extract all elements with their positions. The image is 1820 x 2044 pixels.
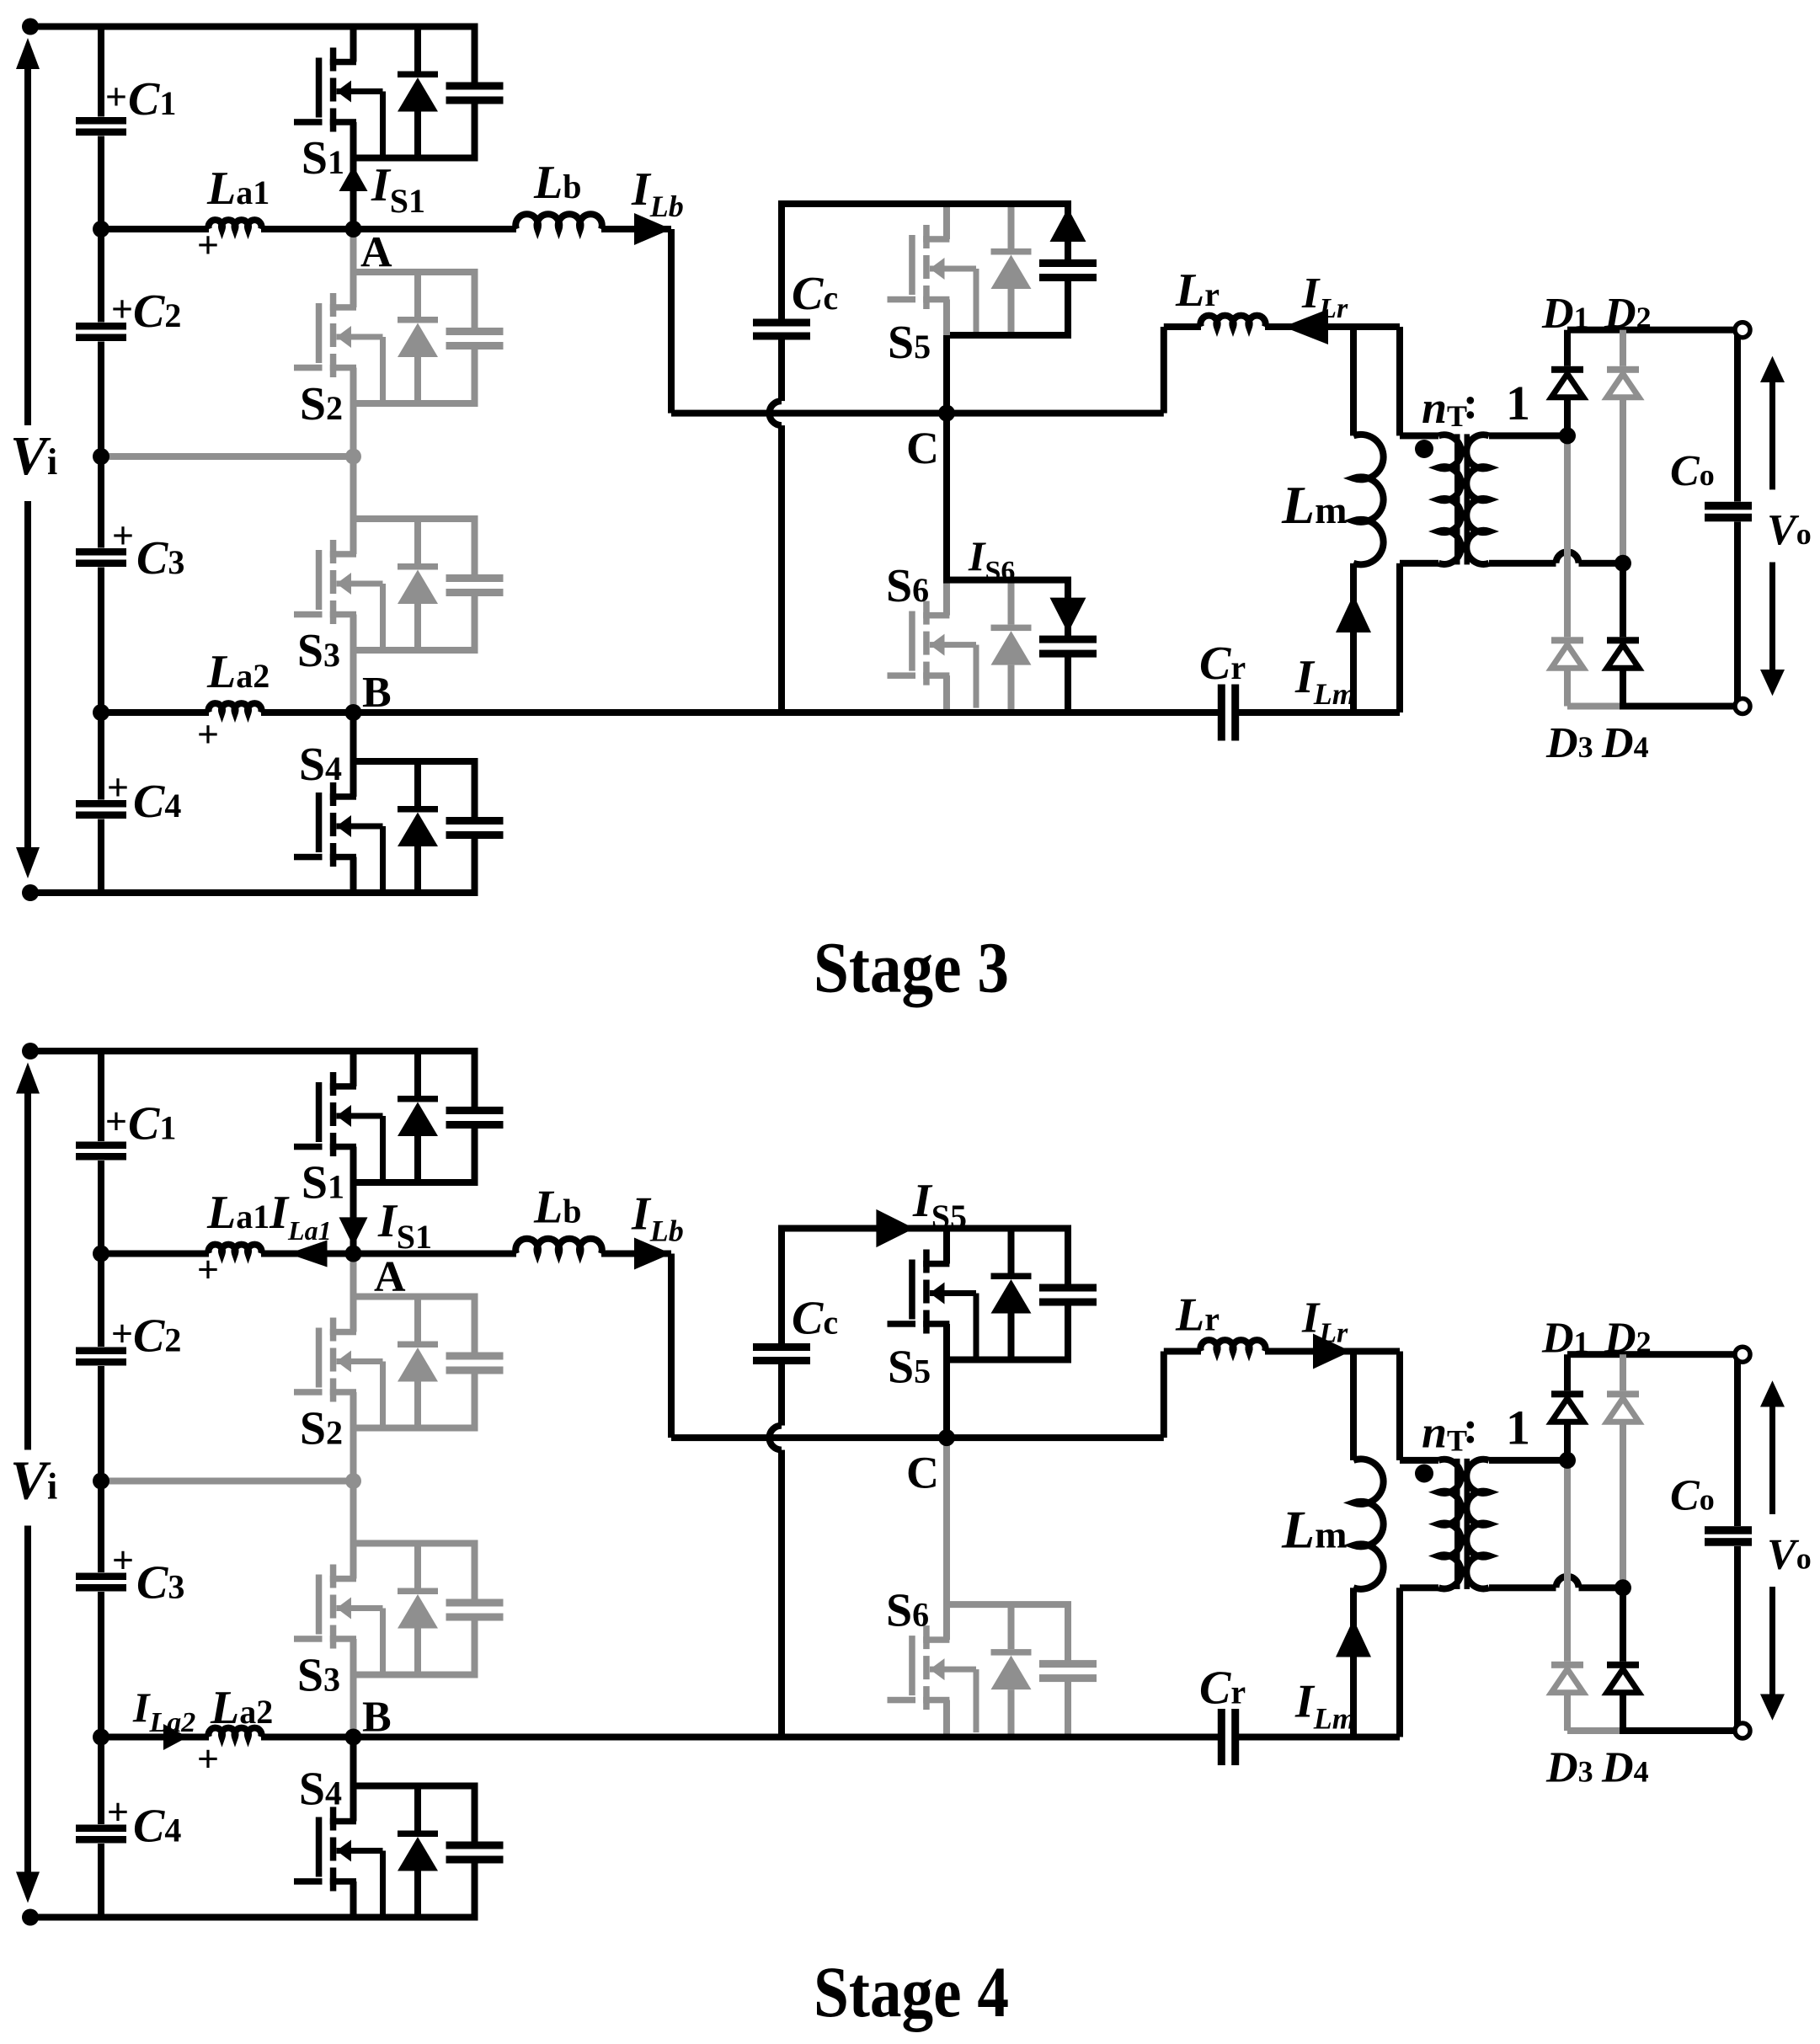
wire stage4 top rail	[30, 1048, 478, 1054]
wire top rail	[30, 24, 478, 30]
diode stage4 D4	[1620, 1588, 1626, 1662]
node B	[345, 704, 362, 721]
node stage4 A	[345, 1246, 362, 1262]
svg-text:+: +	[112, 514, 134, 557]
wire stage4 S2 drain lead (gray)	[350, 1254, 357, 1332]
wire C-row rise to Lr	[1161, 327, 1167, 414]
wire stage4 row C	[671, 1434, 1164, 1441]
wire output bottom rail	[1620, 703, 1737, 710]
svg-text:B: B	[362, 1694, 392, 1742]
svg-text::: :	[1463, 1402, 1478, 1453]
inductor La1	[209, 220, 262, 229]
capacitor stage4 C3	[76, 1573, 126, 1581]
current arrow stage4 IS1 down	[339, 1217, 368, 1246]
svg-text:+: +	[197, 1737, 219, 1780]
diode D1	[1564, 330, 1571, 366]
wire S3 source lead (gray)	[350, 615, 357, 713]
wire stage4 output top rail	[1567, 1351, 1737, 1358]
wire S5 source to node C	[943, 335, 950, 414]
wire stage4 secondary bottom hop	[1556, 1577, 1579, 1588]
current arrow stage4 ILa2 right	[163, 1724, 188, 1750]
transformer stage4 core	[1454, 1459, 1460, 1589]
node bottom-left junction	[22, 884, 39, 901]
wire stage4 Lr drop to primary	[1396, 1352, 1403, 1460]
capacitor stage4 Cr	[1218, 1709, 1225, 1765]
inductor stage4 Lb	[515, 1239, 602, 1254]
capacitor stage4 C1	[76, 1142, 126, 1150]
transistor S4	[330, 782, 337, 806]
svg-text:A: A	[360, 229, 392, 277]
node secondary top junction	[1559, 427, 1576, 444]
wire input capacitor chain rail	[98, 27, 104, 117]
node mid-left junction	[93, 448, 109, 465]
current arrow ILr left	[1284, 309, 1328, 344]
source Vi arrow lower	[24, 501, 31, 849]
transformer primary bottom	[1400, 560, 1438, 567]
inductor Lm	[1350, 327, 1357, 435]
wire stage4 row B	[101, 1734, 209, 1741]
source Vi stage4 arrow lower	[24, 1526, 31, 1874]
wire S4 source lead	[350, 857, 357, 894]
wire Lr drop to primary	[1396, 327, 1403, 435]
wire secondary bottom	[1489, 560, 1556, 567]
svg-text:Stage 3: Stage 3	[814, 927, 1009, 1008]
svg-text::: :	[1463, 377, 1478, 428]
inductor stage4 Lr	[1200, 1340, 1265, 1351]
wire stage4 ILb drop	[668, 1254, 675, 1438]
wire S5 source lead (gray)	[943, 300, 950, 336]
diode D3 (gray)	[1564, 435, 1571, 637]
transistor stage4 S1	[330, 1072, 337, 1096]
svg-text:+: +	[111, 1312, 133, 1355]
svg-text:A: A	[374, 1253, 406, 1301]
transformer primary top	[1400, 432, 1438, 439]
capacitor Cr	[1218, 685, 1225, 741]
wire S4 drain lead	[350, 712, 357, 797]
wire stage4 S3 drain lead (gray)	[350, 1481, 357, 1579]
wire primary return	[1396, 563, 1403, 712]
wire stage4 S1 source lead	[350, 1147, 357, 1254]
wire S1 source lead	[350, 122, 357, 229]
transistor stage4 S3 (gray)	[330, 1565, 337, 1588]
node stage4 B	[345, 1729, 362, 1746]
current arrow IS1 up	[339, 166, 368, 191]
transformer stage4 primary winding	[1438, 1460, 1461, 1589]
transistor S1	[330, 48, 337, 72]
transistor stage4 S6 (gray)	[923, 1625, 930, 1649]
wire stage4 C-row rise to Lr	[1161, 1352, 1167, 1438]
wire stage4 S4 source lead	[350, 1881, 357, 1918]
current arrow stage4 ILr right	[1313, 1334, 1351, 1369]
node A	[345, 221, 362, 237]
transistor S5 (gray switch, black snubber)	[923, 225, 930, 248]
capacitor Cc	[778, 204, 785, 319]
wire stage4 output bottom rail	[1620, 1727, 1737, 1734]
wire stage4 row mid (gray)	[101, 1478, 354, 1485]
arrow Vo up	[1769, 381, 1775, 489]
wire ILb drop	[668, 229, 675, 414]
node B-row left junction	[93, 704, 109, 721]
wire secondary bottom hop	[1556, 552, 1579, 563]
transistor S3 (gray)	[330, 540, 337, 563]
svg-text:+: +	[197, 223, 219, 266]
inductor stage4 La2	[209, 1728, 262, 1737]
current arrow stage4 ILb	[634, 1238, 671, 1270]
svg-text:1: 1	[1506, 376, 1530, 430]
arrow stage4 Vo up	[1769, 1406, 1775, 1514]
wire S2 drain lead (gray)	[350, 229, 357, 307]
transistor S2 (gray)	[330, 293, 337, 317]
arrow Vo down	[1769, 563, 1775, 671]
svg-text:B: B	[362, 669, 392, 717]
wire stage4 output right rail	[1734, 1354, 1741, 1526]
capacitor C1	[76, 117, 126, 125]
wire stage4 row B right of Cr	[1239, 1734, 1400, 1741]
node stage4 mid switch junction	[345, 1473, 361, 1489]
terminal output minus	[1735, 699, 1750, 714]
wire bottom rail	[30, 889, 478, 896]
node primary polarity dot	[1415, 440, 1433, 458]
inductor stage4 La1	[209, 1245, 262, 1254]
diode stage4 D1	[1564, 1354, 1571, 1390]
inductor Lr	[1200, 316, 1265, 327]
node mid switch junction	[345, 449, 361, 465]
diode stage4 D2 (gray)	[1620, 1354, 1626, 1390]
wire secondary top	[1489, 432, 1567, 439]
wire S6 source lead (gray)	[943, 675, 950, 712]
wire S2 source lead (gray)	[350, 368, 357, 457]
wire row mid (gray)	[101, 453, 354, 460]
wire stage4 secondary top	[1489, 1457, 1567, 1464]
inductor stage4 Lm	[1350, 1352, 1357, 1460]
wire output right rail	[1734, 330, 1741, 502]
wire S3 drain lead (gray)	[350, 456, 357, 554]
wire row B	[101, 709, 209, 716]
wire output top rail	[1567, 327, 1737, 334]
transformer secondary winding	[1466, 435, 1489, 564]
transistor stage4 S2 (gray)	[330, 1318, 337, 1342]
source Vi stage4 arrow upper	[24, 1092, 31, 1450]
wire stage4 S5 source to node C	[943, 1324, 950, 1438]
wire stage4 bottom rail	[30, 1914, 478, 1921]
transformer primary winding	[1438, 435, 1461, 564]
transformer core	[1454, 434, 1460, 564]
wire row C	[671, 410, 1164, 417]
svg-text:+: +	[107, 766, 129, 809]
node stage4 primary polarity dot	[1415, 1465, 1433, 1483]
svg-text:1: 1	[1506, 1401, 1530, 1455]
node top-left junction	[22, 19, 39, 35]
wire stage4 S4 drain lead	[350, 1737, 357, 1822]
transformer stage4 primary bottom	[1400, 1584, 1438, 1591]
terminal stage4 output minus	[1735, 1723, 1750, 1738]
inductor La2	[209, 703, 262, 712]
svg-text:+: +	[197, 712, 219, 755]
svg-text:C: C	[906, 1448, 939, 1498]
diode stage4 D3 (gray)	[1564, 1460, 1571, 1662]
node stage4 B-row left junction	[93, 1729, 109, 1746]
source Vi arrow upper	[24, 67, 31, 425]
wire Cc hop over row C	[770, 401, 782, 425]
wire stage4 row A	[101, 1251, 209, 1257]
capacitor C4	[76, 800, 126, 808]
inductor Lb	[515, 214, 602, 229]
transistor stage4 S4	[330, 1807, 337, 1831]
wire stage4 primary return	[1396, 1588, 1403, 1737]
wire row B right of Cr	[1239, 709, 1400, 716]
wire stage4 secondary bottom	[1489, 1584, 1556, 1591]
node stage4 top-left junction	[22, 1043, 39, 1059]
current arrow ILm up	[1336, 595, 1371, 632]
node stage4 secondary top junction	[1559, 1452, 1576, 1469]
transistor stage4 S5 (black)	[923, 1250, 930, 1273]
transformer stage4 secondary winding	[1466, 1460, 1489, 1589]
node stage4 secondary bottom junction	[1615, 1579, 1631, 1596]
diode D2 (gray)	[1620, 330, 1626, 366]
svg-text:+: +	[105, 75, 127, 118]
capacitor C3	[76, 548, 126, 556]
diode D4	[1620, 563, 1626, 638]
capacitor stage4 Co	[1705, 1526, 1752, 1534]
capacitor Co	[1705, 502, 1752, 510]
node secondary bottom junction	[1615, 555, 1631, 572]
svg-text:C: C	[906, 423, 939, 473]
node stage4 mid-left junction	[93, 1473, 109, 1490]
wire stage4 S3 source lead (gray)	[350, 1639, 357, 1737]
svg-text:Stage 4: Stage 4	[814, 1951, 1009, 2032]
wire stage4 Cc hop over row C	[770, 1426, 782, 1450]
capacitor stage4 C2	[76, 1348, 126, 1355]
node stage4 bottom-left junction	[22, 1909, 39, 1926]
transistor S6 (gray switch, black cap)	[923, 601, 930, 625]
wire row Lr	[1164, 323, 1201, 330]
capacitor stage4 Cc	[778, 1229, 785, 1344]
current arrow stage4 IS5 right	[876, 1209, 914, 1247]
capacitor stage4 C4	[76, 1825, 126, 1833]
svg-text:+: +	[112, 1539, 134, 1582]
svg-text:+: +	[105, 1100, 127, 1143]
wire node C to S6	[943, 414, 950, 580]
svg-text:+: +	[111, 287, 133, 330]
current arrow stage4 ILm up	[1336, 1620, 1371, 1657]
wire stage4 input capacitor chain rail	[98, 1051, 104, 1141]
wire row A	[101, 226, 209, 232]
current arrow ILb	[634, 213, 671, 245]
terminal output plus	[1735, 323, 1750, 338]
node stage4 A-row left junction	[93, 1246, 109, 1262]
arrow stage4 Vo down	[1769, 1587, 1775, 1695]
terminal stage4 output plus	[1735, 1347, 1750, 1362]
node C	[938, 405, 955, 422]
transformer stage4 primary top	[1400, 1457, 1438, 1464]
node stage4 C	[938, 1429, 955, 1446]
node A-row left junction	[93, 221, 109, 237]
capacitor C2	[76, 323, 126, 330]
wire stage4 row Lr	[1164, 1348, 1201, 1355]
svg-text:+: +	[197, 1248, 219, 1291]
svg-text:+: +	[107, 1791, 129, 1833]
wire stage4 S6 source lead (gray)	[943, 1700, 950, 1737]
current arrow stage4 ILa1 left	[288, 1241, 328, 1267]
wire stage4 S2 source lead (gray)	[350, 1392, 357, 1481]
wire stage4 node C to S6 (gray)	[943, 1438, 950, 1604]
